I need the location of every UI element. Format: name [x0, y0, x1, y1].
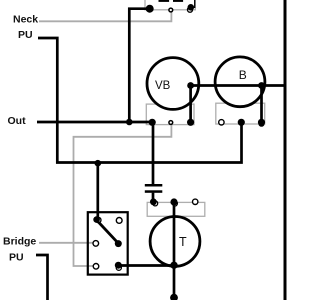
- svg-text:VB: VB: [155, 80, 171, 92]
- switch bottom-right lug dot: [115, 262, 122, 269]
- pot T circle: [150, 217, 200, 267]
- svg-text:T: T: [179, 235, 187, 249]
- T middle lug dot: [170, 198, 177, 205]
- svg-text:Bridge: Bridge: [3, 236, 36, 248]
- wire: VB wiper through B pot to right border: [191, 84, 285, 87]
- switch body: [88, 212, 128, 274]
- B right lug dot: [258, 119, 265, 126]
- wire: junction to switch top-left lug: [96, 163, 99, 221]
- switch top-left lug ring: [96, 217, 101, 222]
- B right lug ring: [259, 121, 264, 126]
- svg-text:Neck: Neck: [13, 14, 38, 26]
- pot VN bottom arc segments (cut by image top): [159, 0, 170, 2]
- wire: Bridge PU down: [36, 255, 48, 300]
- T left lug dot: [150, 198, 157, 205]
- VN right lug ring: [188, 7, 193, 12]
- wire: T middle lug wiper down to bottom terminal: [173, 202, 176, 298]
- pot VB lug strip: [146, 104, 194, 125]
- B left lug: [219, 120, 224, 125]
- VB left lug dot: [149, 119, 156, 126]
- svg-text:Out: Out: [8, 115, 27, 127]
- bottom terminal dot: [170, 294, 178, 300]
- switch middle-left lug: [93, 241, 99, 247]
- wire: switch bottom-right lug to T wiper line: [118, 264, 174, 267]
- VN left lug dot: [146, 5, 154, 13]
- svg-text:PU: PU: [9, 252, 24, 264]
- VB middle lug: [169, 121, 173, 125]
- switch middle-right lug dot: [115, 240, 122, 247]
- junction dot: T wiper at circle bottom: [170, 262, 177, 269]
- pot B circle: [215, 57, 265, 107]
- capacitor C top plate: [145, 184, 163, 187]
- pot VB circle: [147, 58, 199, 110]
- wire: Neck label to VN middle lug (gray): [39, 11, 171, 21]
- wire: Out line to VB left lug: [37, 121, 152, 124]
- wire: VB left lug down to capacitor: [152, 122, 155, 184]
- wire: Bridge label to switch middle-left lug (gray): [39, 242, 93, 244]
- switch top-left lug dot: [93, 216, 100, 223]
- wire: capacitor to T left lug: [152, 193, 155, 202]
- wire: VB wiper to right lug: [189, 86, 192, 123]
- VB wiper dot: [187, 82, 194, 89]
- switch bottom-right lug ring: [116, 265, 121, 270]
- wire: Neck PU to B pot middle lug: [38, 38, 242, 163]
- B middle lug dot: [238, 119, 245, 126]
- svg-text:PU: PU: [18, 29, 33, 41]
- svg-text:B: B: [239, 68, 247, 82]
- VN right lug dot: [188, 4, 195, 11]
- switch pole diagonal: [97, 221, 118, 244]
- junction dot: VN wire on Out line: [126, 119, 133, 126]
- T middle lug ring: [172, 201, 177, 206]
- wire: right border vertical: [284, 0, 287, 300]
- wire: B right lug up to through line: [260, 86, 263, 123]
- VB right lug dot: [187, 119, 194, 126]
- switch bottom-left lug: [93, 264, 99, 270]
- wire: VB middle lug down, left, down to switch lower-left lug (gray): [74, 124, 172, 266]
- wire: VN right lug up (thin): [191, 0, 195, 7]
- T left lug ring: [153, 201, 158, 206]
- switch top-right lug: [116, 218, 122, 224]
- pot T lug strip: [147, 202, 205, 216]
- wire: VN left lug down to Out line: [129, 9, 149, 122]
- junction dot: switch branch: [95, 160, 102, 167]
- B wiper dot: [258, 82, 265, 89]
- pot VN lug strip (cut off at top): [145, 0, 195, 10]
- T right lug: [193, 199, 198, 204]
- VN middle lug: [169, 8, 173, 12]
- pot B lug strip: [216, 103, 265, 124]
- capacitor C bottom plate: [145, 190, 163, 193]
